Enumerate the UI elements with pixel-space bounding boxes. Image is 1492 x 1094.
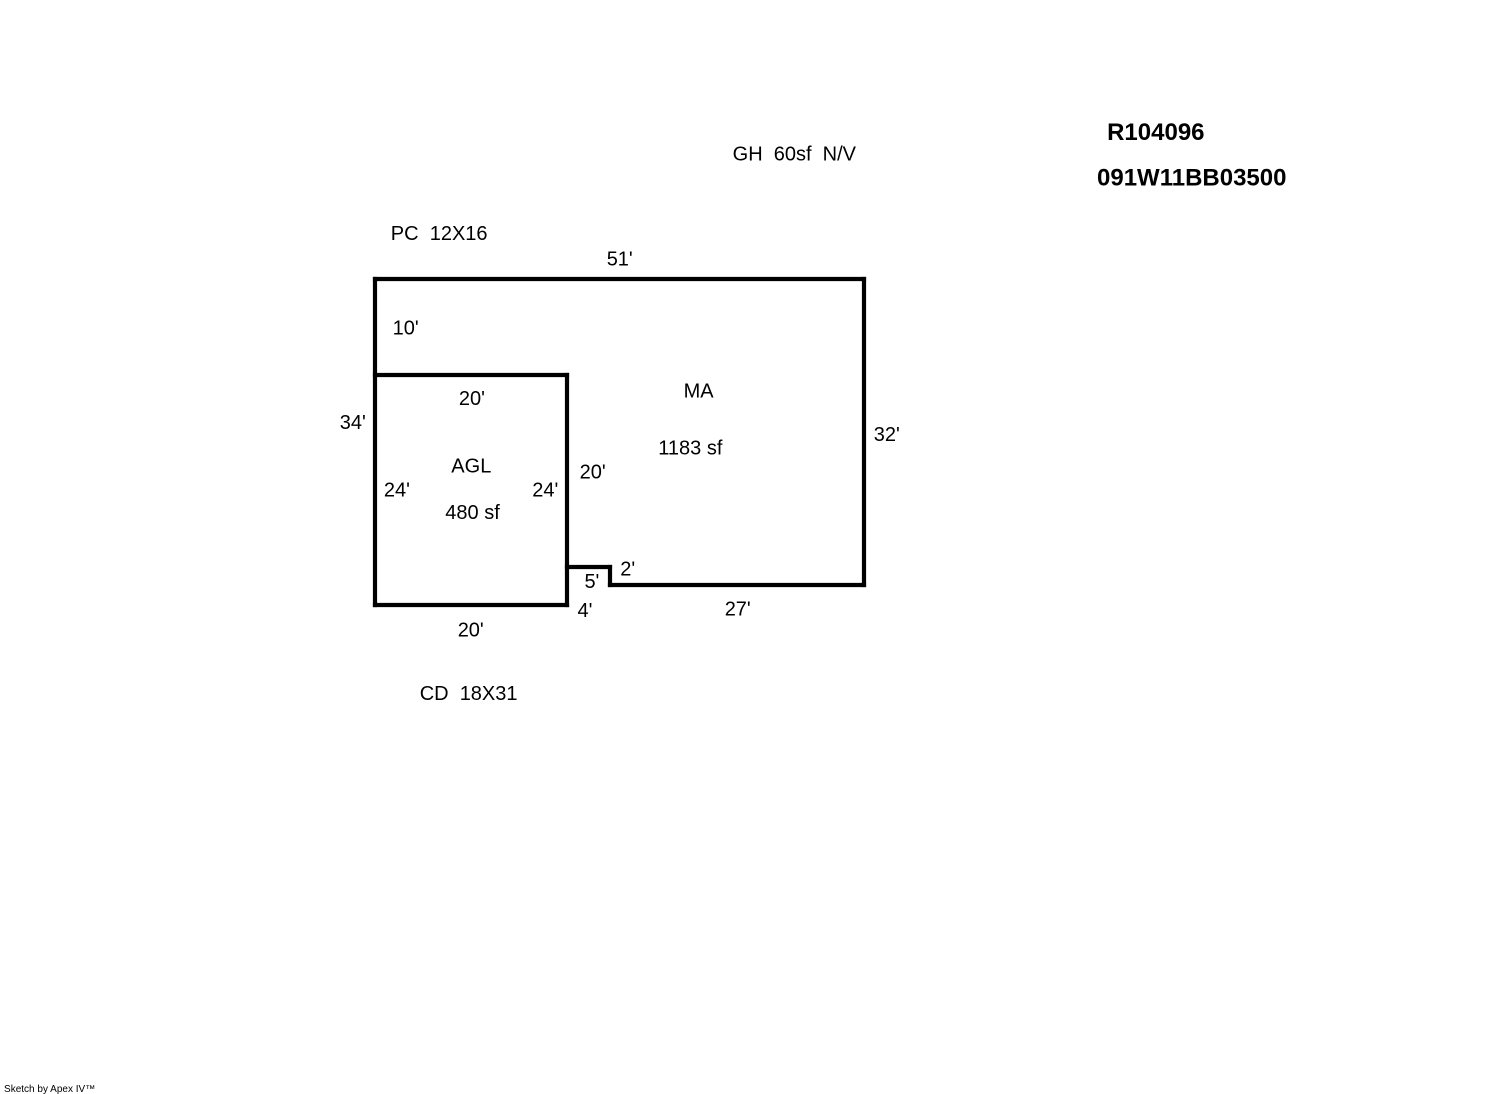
- wall: AGL bottom (20 ft): [373, 603, 569, 607]
- svg-text:27': 27': [725, 598, 751, 620]
- svg-text:1183 sf: 1183 sf: [658, 438, 723, 460]
- svg-text:AGL: AGL: [451, 456, 491, 478]
- wall: AGL right (24 ft): [565, 373, 569, 607]
- svg-text:4': 4': [578, 600, 593, 622]
- wall: MA right (32 ft): [862, 277, 866, 587]
- wall: notch horizontal (5 ft): [565, 565, 612, 569]
- svg-text:2': 2': [620, 559, 635, 581]
- svg-text:CD 18X31: CD 18X31: [420, 683, 518, 705]
- svg-text:R104096: R104096: [1107, 119, 1204, 146]
- wall: AGL top (20 ft): [373, 373, 569, 377]
- wall: notch vertical (2 ft): [608, 565, 612, 587]
- svg-text:24': 24': [384, 480, 410, 502]
- svg-text:34': 34': [340, 412, 366, 434]
- svg-text:5': 5': [584, 571, 599, 593]
- svg-text:Sketch by Apex IV™: Sketch by Apex IV™: [4, 1084, 95, 1094]
- svg-text:20': 20': [459, 388, 485, 410]
- svg-text:32': 32': [874, 424, 900, 446]
- svg-text:PC 12X16: PC 12X16: [391, 223, 488, 245]
- svg-text:20': 20': [458, 620, 484, 642]
- svg-text:091W11BB03500: 091W11BB03500: [1097, 164, 1286, 191]
- svg-text:MA: MA: [684, 381, 715, 403]
- svg-text:20': 20': [580, 462, 606, 484]
- svg-text:24': 24': [532, 480, 558, 502]
- svg-text:480 sf: 480 sf: [445, 502, 500, 524]
- wall: left (34 ft): [373, 277, 377, 607]
- svg-text:GH 60sf N/V: GH 60sf N/V: [733, 144, 857, 166]
- wall: MA top (51 ft): [373, 277, 866, 281]
- svg-text:10': 10': [393, 318, 419, 340]
- wall: MA bottom right (27 ft): [608, 583, 866, 587]
- svg-text:51': 51': [607, 248, 633, 270]
